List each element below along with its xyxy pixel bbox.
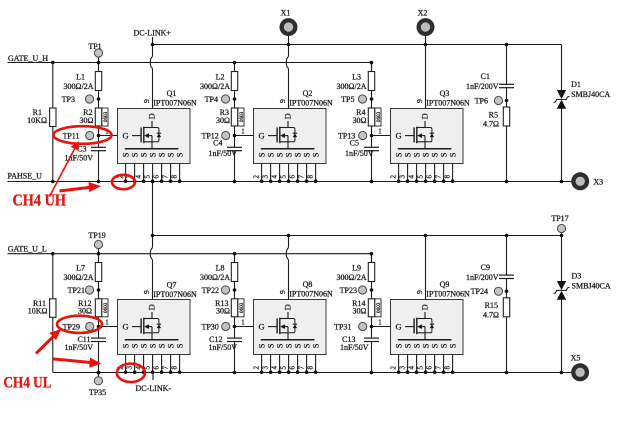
wire gate line corner down to L3 bbox=[371, 63, 373, 72]
test point TP19 bbox=[98, 248, 100, 254]
inductor L8 bbox=[231, 263, 237, 282]
test point TP4 bbox=[221, 95, 229, 103]
resistor R4 0603 package box bbox=[375, 108, 381, 126]
svg-text:1nF/50V: 1nF/50V bbox=[209, 343, 238, 352]
svg-text:L8: L8 bbox=[216, 263, 225, 272]
svg-text:TP31: TP31 bbox=[334, 322, 351, 331]
svg-text:Q7: Q7 bbox=[167, 280, 177, 289]
resistor R3 30Ω bbox=[231, 108, 237, 126]
svg-text:C4: C4 bbox=[213, 139, 222, 148]
svg-text:TP21: TP21 bbox=[68, 286, 85, 295]
resistor R14 30Ω bbox=[368, 299, 374, 317]
wire net GATE_U_L bbox=[8, 253, 372, 255]
capacitor C3 1nF/50V bbox=[91, 146, 106, 148]
svg-text:Q2: Q2 bbox=[303, 89, 313, 98]
inductor L9 bbox=[368, 263, 374, 282]
capacitor C9 1nF/200V bbox=[499, 274, 514, 276]
wire gate pin wire to MOSFET bbox=[372, 326, 391, 328]
wire gate pin wire to MOSFET bbox=[99, 135, 118, 137]
svg-text:TP22: TP22 bbox=[202, 286, 219, 295]
node junction C11 bottom on net bbox=[97, 371, 101, 375]
node junction TP row A bbox=[370, 97, 374, 101]
wire R11 column bbox=[52, 254, 54, 373]
svg-text:L1: L1 bbox=[76, 72, 85, 81]
svg-text:CH4 UH: CH4 UH bbox=[13, 191, 67, 210]
svg-text:L9: L9 bbox=[352, 263, 361, 272]
node junction TP row B (gate pin node) bbox=[97, 134, 101, 138]
svg-text:Q1: Q1 bbox=[167, 89, 177, 98]
svg-text:DC-LINK+: DC-LINK+ bbox=[134, 29, 172, 38]
svg-text:TP1: TP1 bbox=[88, 42, 101, 51]
transistor Q3 IPT007N06N bbox=[378, 99, 463, 183]
svg-text:300Ω/2A: 300Ω/2A bbox=[64, 82, 94, 91]
svg-text:L7: L7 bbox=[76, 263, 85, 272]
test point TP12 bbox=[222, 131, 230, 139]
wire gate pin wire to MOSFET bbox=[372, 135, 391, 137]
svg-text:30Ω: 30Ω bbox=[353, 307, 367, 316]
wire net GATE_U_H bbox=[8, 62, 372, 64]
svg-text:1nF/200V: 1nF/200V bbox=[466, 273, 499, 282]
capacitor C4 1nF/50V bbox=[227, 146, 242, 148]
svg-text:TP17: TP17 bbox=[551, 214, 568, 223]
resistor R13 0603 package box bbox=[238, 299, 244, 317]
svg-text:C1: C1 bbox=[481, 72, 490, 81]
svg-text:4.7Ω: 4.7Ω bbox=[483, 120, 499, 129]
svg-text:1nF/200V: 1nF/200V bbox=[466, 82, 499, 91]
svg-text:TP24: TP24 bbox=[471, 287, 488, 296]
svg-text:4.7Ω: 4.7Ω bbox=[483, 310, 499, 319]
test point TP13 bbox=[359, 131, 367, 139]
node junction L2 top on gate line bbox=[233, 61, 237, 65]
svg-text:L2: L2 bbox=[216, 72, 225, 81]
node junction TP row A bbox=[233, 288, 237, 292]
inductor L7 bbox=[95, 263, 101, 282]
node junction L8 top on gate line bbox=[233, 252, 237, 256]
svg-text:X2: X2 bbox=[418, 9, 428, 18]
svg-text:IPT007N06N: IPT007N06N bbox=[289, 99, 333, 108]
test point TP35 bbox=[97, 373, 99, 378]
wire C9/R15 snubber column (bottom) bbox=[506, 236, 508, 276]
inductor L1 bbox=[95, 72, 101, 91]
wire net PAHSE_U (phase) bbox=[8, 181, 572, 183]
node junction R1 bottom on phase bbox=[51, 180, 55, 184]
transistor Q9 IPT007N06N bbox=[378, 290, 463, 374]
wire drain (pin 9) bbox=[288, 45, 290, 57]
svg-text:GATE_U_L: GATE_U_L bbox=[8, 245, 47, 254]
wire L1 column vertical bbox=[98, 63, 100, 148]
wire drain (pin 9) bbox=[425, 45, 427, 109]
svg-text:0603: 0603 bbox=[376, 111, 382, 122]
node junction TP row A bbox=[233, 97, 237, 101]
svg-text:C9: C9 bbox=[481, 263, 490, 272]
diode D1 SMBJ40CA (TVS) bbox=[561, 45, 563, 91]
annotation ellipse around Q7 source pins on DC-LINK- bbox=[117, 364, 145, 382]
connector X2 bbox=[425, 36, 427, 45]
svg-text:SMBJ40CA: SMBJ40CA bbox=[571, 90, 610, 99]
wire gate pin wire to MOSFET bbox=[235, 326, 254, 328]
node DC-LINK+ label tick bbox=[152, 37, 154, 45]
wire drain (pin 9) bbox=[152, 45, 154, 57]
test point TP21 bbox=[85, 286, 93, 294]
test point TP29 bbox=[86, 322, 94, 330]
svg-text:0603: 0603 bbox=[239, 302, 245, 313]
node junction TP row A bbox=[97, 288, 101, 292]
node junction C5 bottom on net bbox=[370, 180, 374, 184]
wire drain (pin 9) bbox=[425, 236, 427, 300]
wire L3 column vertical bbox=[371, 63, 373, 148]
svg-text:1nF/50V: 1nF/50V bbox=[65, 343, 94, 352]
resistor R11 10KΩ bbox=[50, 299, 56, 318]
svg-text:0603: 0603 bbox=[103, 302, 109, 313]
transistor Q1 IPT007N06N bbox=[105, 99, 190, 183]
wire net mid rail (phase to low side drains) bbox=[152, 235, 562, 237]
svg-text:1nF/50V: 1nF/50V bbox=[340, 343, 369, 352]
svg-text:10KΩ: 10KΩ bbox=[28, 307, 48, 316]
wire gate pin wire to MOSFET bbox=[99, 326, 118, 328]
wire drain (pin 9) bbox=[288, 236, 290, 248]
wire net DC-LINK- rail bbox=[53, 372, 572, 374]
svg-text:0603: 0603 bbox=[103, 111, 109, 122]
svg-text:X1: X1 bbox=[281, 9, 291, 18]
svg-text:D1: D1 bbox=[571, 80, 581, 89]
svg-text:IPT007N06N: IPT007N06N bbox=[153, 290, 197, 299]
resistor R2 0603 package box bbox=[102, 108, 108, 126]
capacitor C1 1nF/200V bbox=[499, 83, 514, 85]
node junction TP row B (gate pin node) bbox=[97, 325, 101, 329]
svg-text:SMBJ40CA: SMBJ40CA bbox=[572, 282, 611, 291]
svg-text:300Ω/2A: 300Ω/2A bbox=[337, 273, 367, 282]
svg-text:30Ω: 30Ω bbox=[216, 116, 230, 125]
svg-text:GATE_U_H: GATE_U_H bbox=[8, 54, 48, 63]
svg-text:1nF/50V: 1nF/50V bbox=[209, 149, 238, 158]
svg-text:30Ω: 30Ω bbox=[78, 307, 92, 316]
test point TP30 bbox=[222, 322, 230, 330]
svg-text:IPT007N06N: IPT007N06N bbox=[426, 290, 470, 299]
test point TP23 bbox=[358, 286, 366, 294]
svg-text:TP30: TP30 bbox=[201, 322, 218, 331]
svg-text:30Ω: 30Ω bbox=[80, 116, 94, 125]
wire L7 column vertical bbox=[98, 254, 100, 338]
inductor L3 bbox=[368, 72, 374, 91]
node junction R1 top on gate line bbox=[51, 61, 55, 65]
test point TP24 bbox=[494, 287, 502, 295]
svg-text:R5: R5 bbox=[489, 110, 498, 119]
test point TP6 bbox=[494, 96, 502, 104]
capacitor C11 1nF/50V bbox=[91, 337, 106, 339]
node junction TP row A bbox=[97, 97, 101, 101]
capacitor C13 1nF/50V bbox=[364, 337, 379, 339]
annotation ellipse around TP29 bbox=[57, 316, 102, 333]
node junction C4 bottom on net bbox=[233, 180, 237, 184]
wire L2 column vertical bbox=[234, 63, 236, 148]
annotation arrow CH4 UH to TP11 bbox=[50, 148, 76, 197]
annotation arrow CH4 UH to phase pins bbox=[60, 187, 91, 191]
resistor R3 0603 package box bbox=[238, 108, 244, 126]
node junction TP row B (gate pin node) bbox=[233, 325, 237, 329]
wire R1 column bbox=[52, 63, 54, 182]
node DC-LINK- label tick bbox=[152, 373, 154, 381]
resistor R12 30Ω bbox=[95, 299, 101, 317]
inductor L2 bbox=[231, 72, 237, 91]
connector X1 bbox=[288, 36, 290, 45]
svg-text:300Ω/2A: 300Ω/2A bbox=[200, 273, 230, 282]
resistor R13 30Ω bbox=[231, 299, 237, 317]
svg-text:TP5: TP5 bbox=[341, 95, 354, 104]
svg-text:Q8: Q8 bbox=[303, 280, 313, 289]
svg-text:TP23: TP23 bbox=[340, 286, 357, 295]
wire gate_U_L corner down to L9 bbox=[371, 254, 373, 263]
svg-text:TP19: TP19 bbox=[88, 231, 105, 240]
resistor R14 0603 package box bbox=[375, 299, 381, 317]
annotation ellipse around TP11 bbox=[54, 126, 112, 144]
wire L8 column vertical bbox=[234, 254, 236, 338]
svg-text:10KΩ: 10KΩ bbox=[27, 116, 47, 125]
node junction C3 bottom on net bbox=[97, 180, 101, 184]
test point TP22 bbox=[221, 286, 229, 294]
connector X5 bbox=[571, 363, 589, 381]
svg-text:Q9: Q9 bbox=[440, 280, 450, 289]
svg-text:0603: 0603 bbox=[239, 111, 245, 122]
wire C1/R5 snubber column (top) bbox=[506, 45, 508, 85]
node junction R11 top on gate line bbox=[51, 252, 55, 256]
node junction C13 bottom on net bbox=[370, 371, 374, 375]
resistor R15 4.7Ω bbox=[503, 298, 509, 317]
test point TP17 bbox=[561, 232, 563, 235]
capacitor C5 1nF/50V bbox=[364, 146, 379, 148]
resistor R2 30Ω bbox=[95, 108, 101, 126]
test point TP1 bbox=[98, 57, 100, 63]
wire gate pin wire to MOSFET bbox=[235, 135, 254, 137]
node junction L3 top on gate line bbox=[370, 61, 374, 65]
svg-text:CH4 UL: CH4 UL bbox=[4, 374, 52, 391]
resistor R4 30Ω bbox=[368, 108, 374, 126]
svg-text:R15: R15 bbox=[485, 301, 498, 310]
node junction TP row B (gate pin node) bbox=[233, 134, 237, 138]
svg-text:TP4: TP4 bbox=[205, 95, 218, 104]
node junction L1 top on gate line bbox=[97, 61, 101, 65]
test point TP31 bbox=[359, 322, 367, 330]
transistor Q7 IPT007N06N bbox=[105, 290, 190, 374]
svg-text:30Ω: 30Ω bbox=[353, 116, 367, 125]
test point TP3 bbox=[85, 95, 93, 103]
test point TP5 bbox=[358, 95, 366, 103]
svg-text:C5: C5 bbox=[350, 139, 359, 148]
svg-text:300Ω/2A: 300Ω/2A bbox=[200, 82, 230, 91]
diode D3 SMBJ40CA (TVS) bbox=[561, 236, 563, 282]
svg-text:IPT007N06N: IPT007N06N bbox=[289, 290, 333, 299]
svg-text:IPT007N06N: IPT007N06N bbox=[153, 99, 197, 108]
svg-text:D3: D3 bbox=[572, 272, 582, 281]
svg-text:IPT007N06N: IPT007N06N bbox=[426, 99, 470, 108]
annotation arrow CH4 UL to TP29 bbox=[36, 336, 54, 353]
node junction TP row B (gate pin node) bbox=[370, 325, 374, 329]
svg-text:1nF/50V: 1nF/50V bbox=[345, 149, 374, 158]
annotation ellipse around Q1 source pins on phase bbox=[112, 175, 135, 189]
svg-text:L3: L3 bbox=[352, 72, 361, 81]
resistor R1 10KΩ bbox=[50, 108, 56, 127]
wire L9 column vertical bbox=[371, 254, 373, 338]
node junction L9 top on gate line bbox=[370, 252, 374, 256]
node junction TP row B (gate pin node) bbox=[370, 134, 374, 138]
transistor Q8 IPT007N06N bbox=[241, 290, 326, 374]
svg-text:300Ω/2A: 300Ω/2A bbox=[64, 273, 94, 282]
svg-text:30Ω: 30Ω bbox=[216, 307, 230, 316]
annotation arrow CH4 UL to DC-LINK- pins bbox=[53, 359, 90, 363]
connector X3 bbox=[571, 172, 589, 190]
svg-text:X3: X3 bbox=[593, 177, 603, 186]
wire phase down to mid rail and Q7 drain bbox=[152, 182, 154, 248]
svg-text:300Ω/2A: 300Ω/2A bbox=[337, 82, 367, 91]
svg-text:TP35: TP35 bbox=[89, 388, 106, 397]
transistor Q2 IPT007N06N bbox=[241, 99, 326, 183]
node junction D3 bottom on DC-LINK- bbox=[560, 371, 564, 375]
node junction D1 bottom on phase bbox=[560, 180, 564, 184]
svg-text:Q3: Q3 bbox=[440, 89, 450, 98]
svg-text:0603: 0603 bbox=[376, 302, 382, 313]
svg-text:X5: X5 bbox=[571, 354, 581, 363]
svg-text:DC-LINK-: DC-LINK- bbox=[136, 384, 172, 393]
test point TP11 bbox=[86, 131, 94, 139]
resistor R12 0603 package box bbox=[102, 299, 108, 317]
svg-text:TP6: TP6 bbox=[475, 96, 488, 105]
svg-text:TP3: TP3 bbox=[62, 95, 75, 104]
node junction C12 bottom on net bbox=[233, 371, 237, 375]
capacitor C12 1nF/50V bbox=[227, 337, 242, 339]
node junction L7 top on gate line bbox=[97, 252, 101, 256]
svg-text:TP11: TP11 bbox=[62, 131, 79, 140]
wire net DC-LINK+ rail bbox=[152, 44, 562, 46]
svg-text:PAHSE_U: PAHSE_U bbox=[8, 172, 43, 181]
resistor R5 4.7Ω bbox=[503, 107, 509, 126]
node junction TP row A bbox=[370, 288, 374, 292]
